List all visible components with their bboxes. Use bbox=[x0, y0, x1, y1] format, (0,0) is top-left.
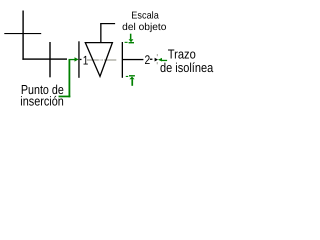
right extent bar bbox=[122, 42, 123, 78]
black dimension arrowhead pointing right at trace point bbox=[155, 58, 158, 62]
green scale glyph bottom: dash bbox=[126, 76, 128, 77]
gray tick above trace point bbox=[157, 54, 158, 56]
green scale glyph bottom: up arrow with top bar bbox=[129, 75, 135, 86]
green arrowhead pointing right at insertion bar bbox=[75, 57, 79, 61]
svg-text:Trazo: Trazo bbox=[168, 46, 196, 61]
svg-text:Escala: Escala bbox=[131, 11, 159, 22]
green leader arrow from Trazo label pointing left bbox=[158, 58, 162, 62]
dimension 1 stub after left bar bbox=[80, 59, 82, 60]
dimension 2 stub after label bbox=[150, 59, 153, 60]
svg-text:del objeto: del objeto bbox=[122, 22, 167, 33]
svg-text:de isolínea: de isolínea bbox=[160, 60, 214, 75]
top elbow leader riser on triangle bbox=[100, 23, 101, 42]
svg-text:2: 2 bbox=[145, 53, 151, 67]
gray tick below trace point bbox=[157, 62, 158, 64]
svg-text:inserción: inserción bbox=[20, 93, 64, 108]
green leader vertical riser bbox=[69, 59, 71, 97]
insertion-point cross marker: vertical line bbox=[22, 11, 23, 60]
green leader from Punto de insercion: horizontal near text bbox=[59, 96, 71, 98]
top elbow leader horizontal bbox=[100, 23, 115, 24]
green leader arrow shaft to insertion bar bbox=[69, 59, 75, 60]
baseline wire from cross to insertion point bbox=[22, 58, 67, 59]
dimension 2 line bbox=[123, 59, 143, 60]
gray isoline dash-dot trace bbox=[87, 59, 116, 60]
green scale glyph top: down arrow with base bar bbox=[129, 34, 134, 44]
green scale glyph top: dash bbox=[125, 42, 128, 43]
station tick on baseline bbox=[49, 42, 50, 77]
left extent bar (insertion point bar) bbox=[78, 41, 79, 78]
symbol triangle (inverted) bbox=[85, 43, 112, 77]
insertion-point cross marker: horizontal line bbox=[4, 33, 41, 34]
